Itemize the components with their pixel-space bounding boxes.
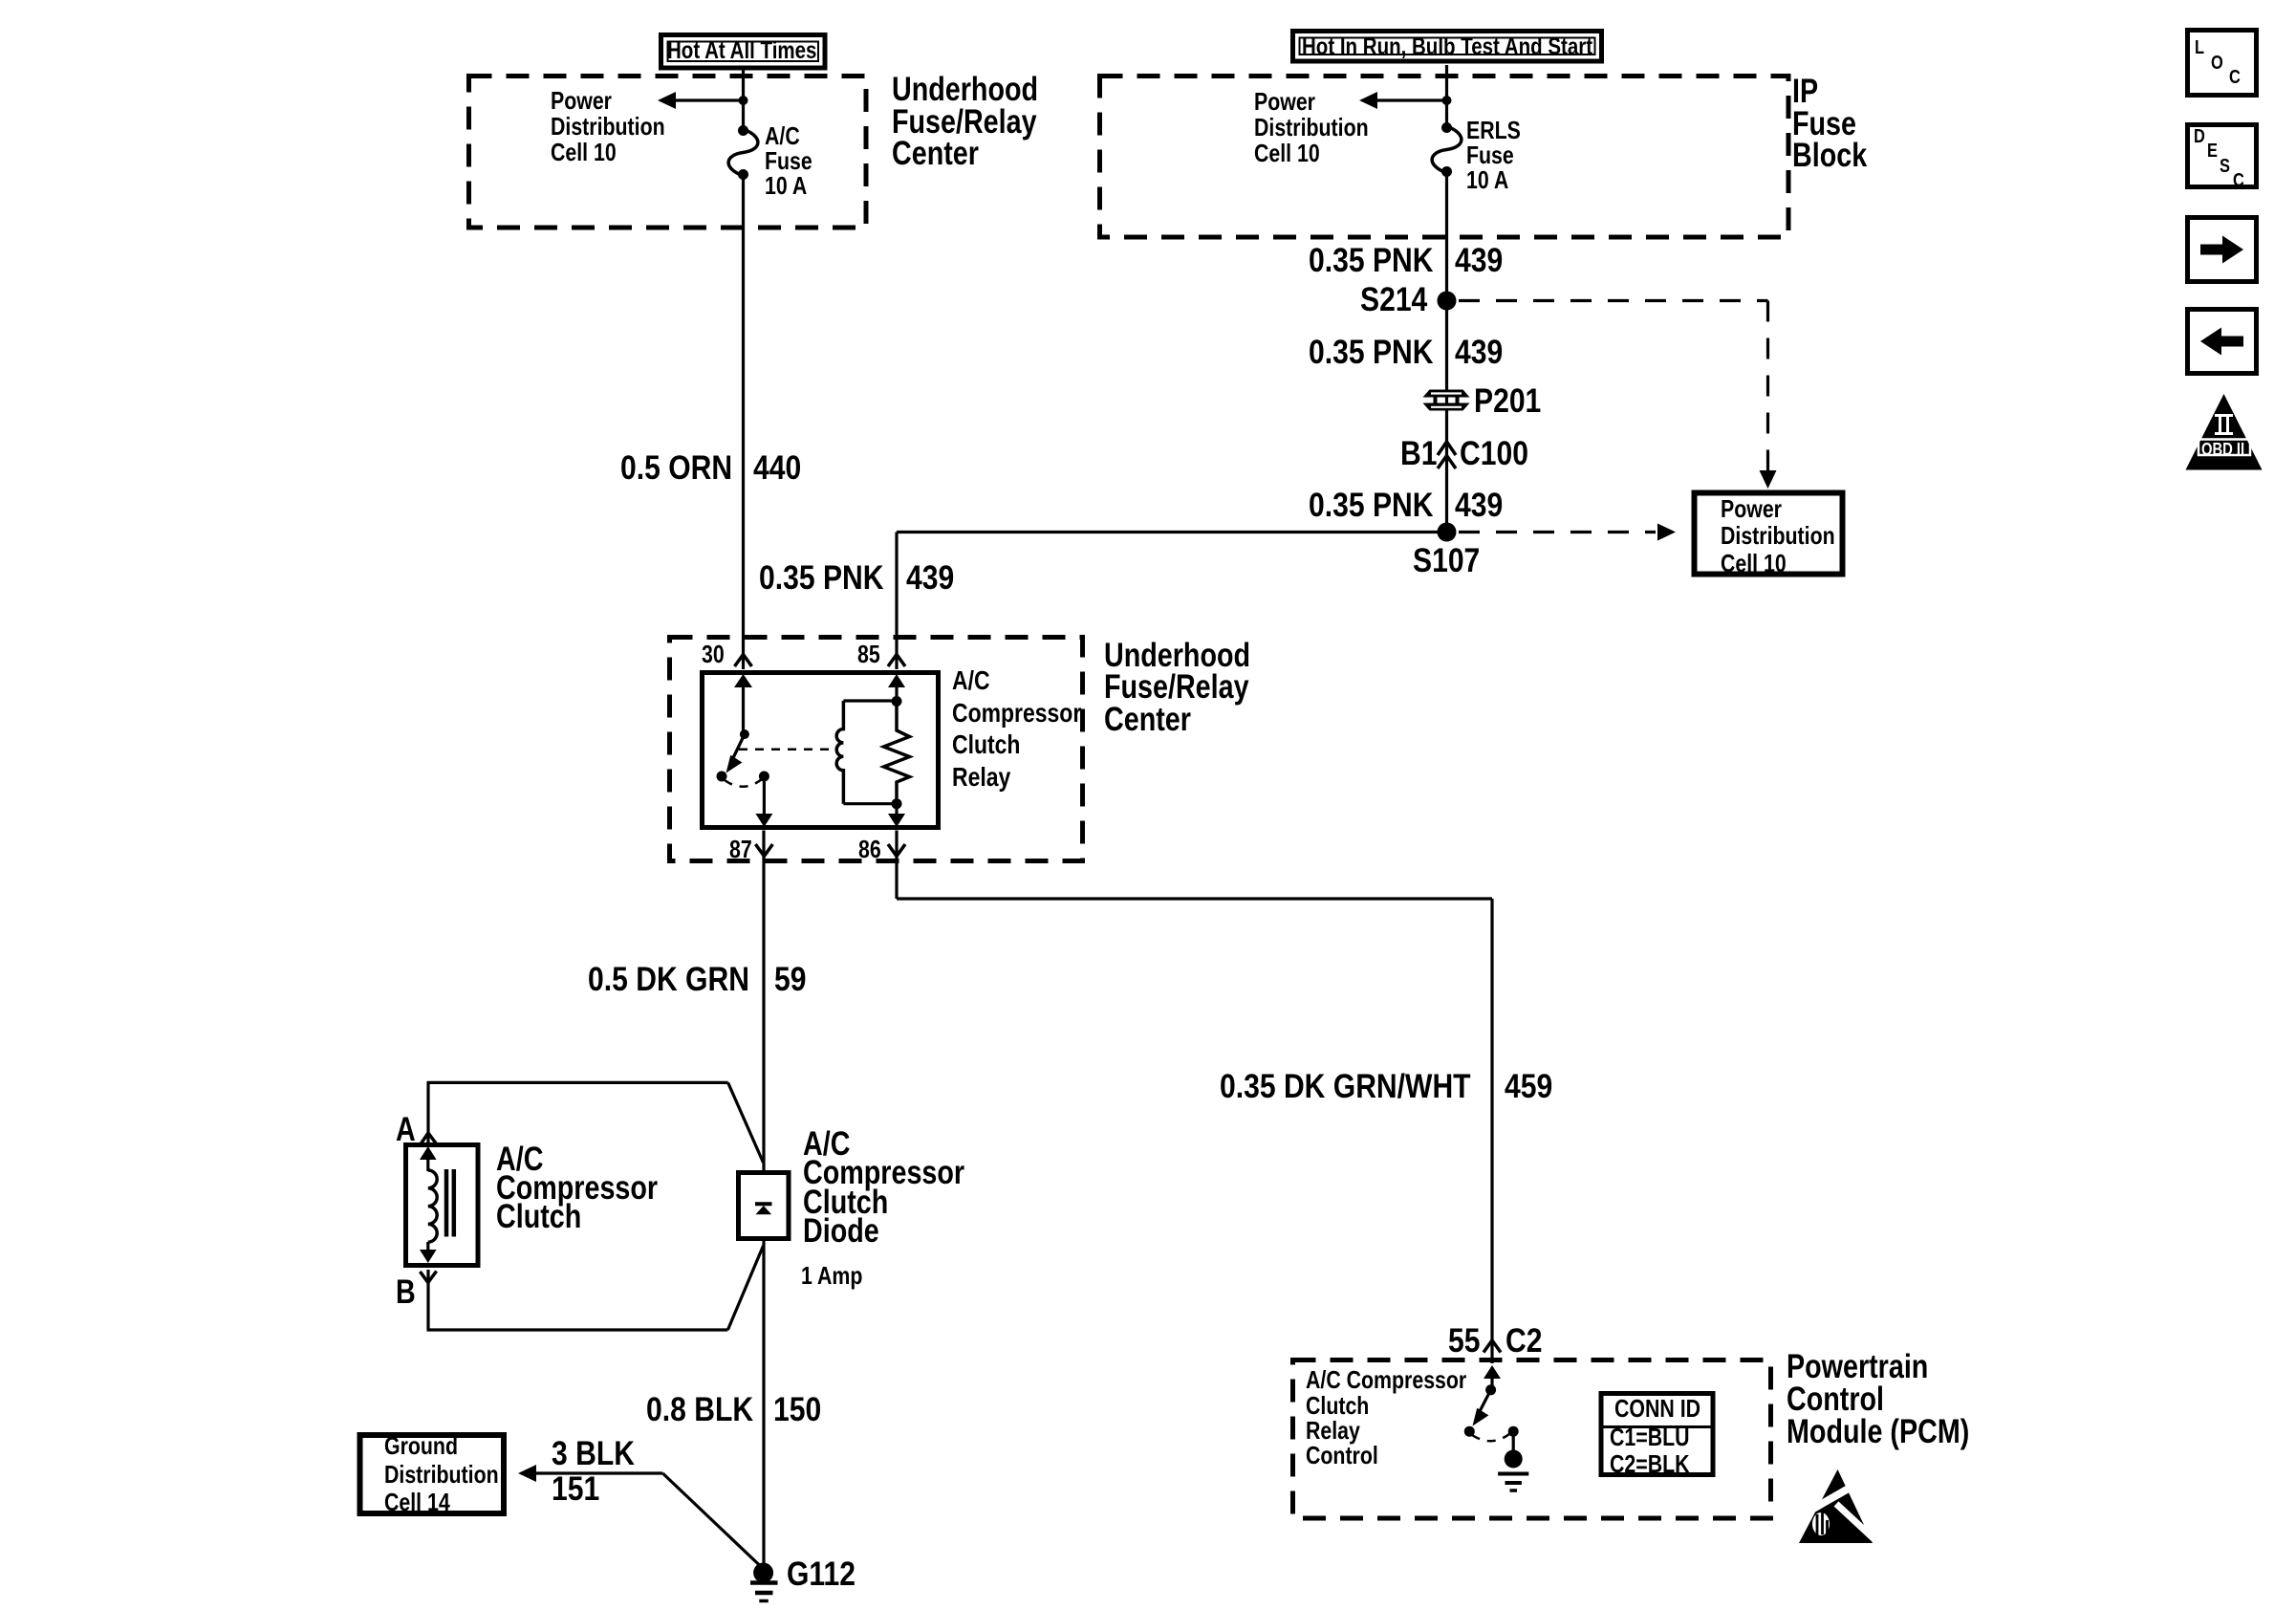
node: junction dot at A/C fuse feed <box>739 96 748 105</box>
wire: relay pin 86 down <box>895 831 898 900</box>
node: fuse bottom terminal dot <box>738 169 748 180</box>
label: relay pin 86 <box>858 837 881 862</box>
wire: clutch pin B vertical <box>426 1270 429 1330</box>
label: wire 0.5 ORN <box>620 451 732 485</box>
wire: clutch B loop diagonal to diode wire <box>727 1246 763 1330</box>
node: ERLS fuse bottom terminal dot <box>1441 166 1452 177</box>
label: CONN ID <box>1614 1396 1700 1422</box>
dashed box: Underhood Fuse/Relay Center (relay) <box>670 638 1083 861</box>
wire: 0.35 PNK 439 horizontal from S107 to relay pin 85 <box>897 531 1447 533</box>
PCM switch pivot dot <box>1485 1384 1496 1395</box>
icon: OBD II triangle <box>2186 394 2263 470</box>
label: wire 150 <box>773 1393 821 1426</box>
label: wire 59 <box>774 963 806 996</box>
arrowhead: right into Power Distribution box <box>1657 524 1676 541</box>
label: wire 0.35 PNK (4) <box>759 561 884 595</box>
label: 1 Amp <box>801 1263 862 1289</box>
wire: 0.35 PNK 439 vertical from ERLS fuse to S107 <box>1445 173 1448 533</box>
label: A/C Compressor Clutch Diode <box>803 1130 964 1247</box>
PCM dashed throw arc <box>1472 1434 1509 1441</box>
wire: 3 BLK 151 horizontal <box>531 1471 662 1474</box>
wire: clutch B loop horizontal <box>427 1328 728 1331</box>
label: wire 0.35 PNK (3) <box>1309 489 1434 522</box>
label: PCM pin 55 <box>1448 1324 1480 1358</box>
relay pin 85 internal arrow (up) <box>888 674 905 701</box>
wire: ERLS fuse feed vertical (upper segment) <box>1445 65 1448 126</box>
label: wire 439 (3) <box>1455 489 1503 522</box>
PCM fixed contact dot <box>1464 1426 1475 1437</box>
label: A/C Compressor Clutch Relay Control <box>1306 1367 1466 1468</box>
wire: clutch A loop horizontal <box>427 1081 728 1084</box>
label: connector P201 <box>1474 384 1541 418</box>
icon letters: LOC <box>2195 38 2204 57</box>
label: wire 440 <box>753 451 801 485</box>
label: Underhood Fuse/Relay Center (top) <box>892 74 1038 170</box>
label: pin B1 <box>1400 437 1437 470</box>
fuse element: ERLS Fuse 10 A (S-curve) <box>1432 126 1462 173</box>
wire: vertical down to relay pin 85 <box>895 533 898 670</box>
label: wire 0.35 DK GRN/WHT <box>1220 1070 1471 1103</box>
relay contact dot to pin 87 <box>759 772 769 782</box>
relay resistor (zigzag) <box>884 702 910 804</box>
label: wire 151 <box>552 1472 599 1506</box>
dashed box: IP Fuse Block <box>1100 76 1789 238</box>
arrowhead: power distribution left arrow <box>658 92 676 109</box>
icon: right arrow glyph <box>2200 236 2243 264</box>
label: A/C Compressor Clutch <box>496 1145 658 1232</box>
relay pin 87 internal arrow (down) <box>755 776 772 827</box>
wire: 0.5 ORN 440 vertical from fuse down to relay pin 30 <box>742 176 745 669</box>
relay pin 86 internal arrow (down) <box>888 804 905 827</box>
label: wire 459 <box>1505 1070 1552 1103</box>
label: IP Fuse Block <box>1792 76 1867 172</box>
label: Powertrain Control Module (PCM) <box>1787 1351 1969 1448</box>
label: clutch pin A <box>396 1113 416 1146</box>
label: Power Distribution Cell 10 (right box) <box>1721 495 1835 577</box>
icon label: OBD II <box>2201 441 2244 458</box>
clutch internal arrow up <box>420 1146 437 1171</box>
label: wire 0.35 PNK (1) <box>1309 244 1434 277</box>
connector C100 pin B1 (double chevron) <box>1438 442 1456 468</box>
banner box: Hot In Run, Bulb Test And Start <box>1293 32 1602 62</box>
ground G112 symbol <box>750 1563 778 1601</box>
label: Power Distribution Cell 10 (IP block) <box>1254 89 1369 167</box>
relay coil bottom lead <box>843 802 897 805</box>
wire: arrow to Power Distribution (left box) <box>669 98 744 101</box>
dashed box: Underhood Fuse/Relay Center (top left) <box>469 76 867 228</box>
PCM internal ground symbol <box>1498 1450 1528 1491</box>
wire: 3 BLK 151 diagonal to G112 <box>662 1473 763 1569</box>
node: junction dot at ERLS fuse feed <box>1442 96 1452 105</box>
connector chevron: clutch pin A <box>421 1133 437 1145</box>
label: splice S214 <box>1360 283 1427 316</box>
diode box: A/C Compressor Clutch Diode <box>739 1173 790 1239</box>
icon: right arrow box <box>2188 218 2257 282</box>
connector chevron: relay pin 85 <box>888 655 905 667</box>
label: wire 0.35 PNK (2) <box>1309 336 1434 369</box>
node: fuse top terminal dot <box>738 125 748 136</box>
label: connector C100 <box>1460 437 1528 470</box>
relay coil <box>836 701 843 804</box>
relay dashed actuation link <box>739 749 834 751</box>
arrowhead: power distribution right arrow <box>1359 92 1377 109</box>
label: wire 439 (4) <box>906 561 954 595</box>
label: wire 439 (2) <box>1455 336 1503 369</box>
PCM contact dot (ground side) <box>1508 1426 1519 1437</box>
arrowhead: down into Power Distribution box <box>1760 470 1777 489</box>
node: coil/resistor bottom junction <box>892 798 902 809</box>
clutch coil (wavy) <box>428 1170 437 1242</box>
wire: A/C fuse feed vertical (upper segment) <box>742 69 745 129</box>
PCM switch blade (diagonal with arrowhead) <box>1473 1390 1491 1426</box>
icon: left arrow glyph <box>2200 328 2243 356</box>
node: splice S214 <box>1438 292 1457 311</box>
label: wire 439 (1) <box>1455 244 1503 277</box>
icon letters: DESC <box>2194 127 2205 146</box>
connector chevron: relay pin 87 <box>755 844 772 857</box>
label: Ground Distribution Cell 14 <box>384 1432 499 1517</box>
wire: dashed horizontal from S107 to Power Distribution box <box>1459 531 1656 533</box>
relay fixed contact dot (87 side) <box>717 772 727 782</box>
ESD warning symbol (triangle) <box>1799 1469 1875 1543</box>
CONN ID table box <box>1601 1394 1713 1475</box>
arrowhead: to Ground Distribution box <box>518 1465 536 1482</box>
label: PCM connector C2 <box>1505 1324 1542 1358</box>
relay pin 30 internal arrow (up) <box>734 674 752 734</box>
label: Underhood Fuse/Relay Center (relay) <box>1104 640 1250 736</box>
relay switch blade (diagonal with arrowhead) <box>726 734 745 773</box>
label: Hot At All Times <box>667 39 816 63</box>
clutch plates (two bars) <box>446 1169 454 1237</box>
node: coil/resistor top junction <box>892 696 902 707</box>
icon: left arrow box <box>2188 310 2257 374</box>
relay box: A/C Compressor Clutch Relay <box>703 673 939 828</box>
clutch box: A/C Compressor Clutch <box>406 1145 479 1266</box>
label: relay pin 87 <box>729 837 752 862</box>
label: Power Distribution Cell 10 (left) <box>551 88 665 166</box>
wire: clutch pin A vertical <box>426 1082 429 1142</box>
relay dashed throw arc <box>725 779 762 787</box>
connector chevron: relay pin 30 <box>735 655 752 667</box>
connector chevron: clutch pin B <box>420 1272 436 1283</box>
banner box: Hot At All Times <box>661 35 826 69</box>
icon: LOC box <box>2188 31 2257 96</box>
label: wire 3 BLK <box>552 1437 635 1470</box>
label: relay pin 85 <box>857 642 880 667</box>
label: Hot In Run, Bulb Test And Start <box>1302 35 1592 59</box>
wire: 0.5 DK GRN 59 from relay pin 87 down to diode <box>762 831 765 1171</box>
label: relay pin 30 <box>702 642 725 667</box>
label: A/C Compressor Clutch Relay <box>952 664 1081 794</box>
label: A/C Fuse 10 A <box>765 123 812 198</box>
box: Power Distribution Cell 10 (solid) <box>1695 493 1843 575</box>
label: C1=BLU / C2=BLK <box>1610 1425 1690 1476</box>
label: splice S107 <box>1413 544 1480 577</box>
wire: dashed horizontal from S214 <box>1459 299 1768 302</box>
connector P201 (inline connector symbol) <box>1423 390 1470 411</box>
relay switch pivot dot <box>740 729 749 739</box>
dashed box: Powertrain Control Module (PCM) <box>1293 1360 1771 1519</box>
wire: 0.8 BLK 150 vertical to ground <box>762 1240 765 1570</box>
fuse element: A/C Fuse 10 A (S-curve) <box>728 129 758 176</box>
connector chevron: PCM pin 55 C2 <box>1484 1340 1501 1353</box>
relay coil top lead <box>843 699 897 702</box>
wire: dashed vertical to Power Distribution Cell 10 box <box>1766 301 1769 471</box>
wire: 0.35 DK GRN/WHT vertical down to PCM pin 55 <box>1490 899 1493 1363</box>
node: ERLS fuse top terminal dot <box>1441 122 1452 133</box>
PCM internal ground lead <box>1512 1431 1515 1451</box>
label: wire 0.5 DK GRN <box>588 963 749 996</box>
node: splice S107 <box>1438 523 1457 542</box>
label: clutch pin B <box>396 1275 416 1309</box>
icon: DESC box <box>2188 125 2257 187</box>
PCM internal arrow up (A/C relay control driver) <box>1484 1365 1501 1390</box>
box: Ground Distribution Cell 14 (solid) <box>360 1435 505 1513</box>
clutch internal arrow down <box>420 1242 437 1263</box>
wire: arrow to Power Distribution (right box) <box>1371 98 1447 101</box>
connector chevron: relay pin 86 <box>888 844 905 857</box>
diode symbol <box>755 1204 772 1214</box>
label: wire 0.8 BLK <box>646 1393 753 1426</box>
label: ERLS Fuse 10 A <box>1466 118 1521 192</box>
label: ground G112 <box>787 1557 856 1591</box>
wire: clutch A loop diagonal to diode wire <box>728 1082 764 1163</box>
wire: 0.35 DK GRN/WHT horizontal run <box>897 897 1492 900</box>
